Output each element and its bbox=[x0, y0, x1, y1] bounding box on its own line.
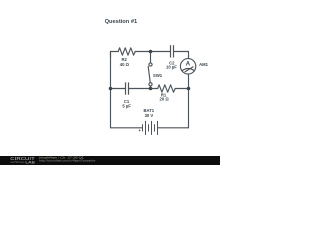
wire top-left corner bbox=[111, 52, 119, 58]
footer logo CIRCUIT LAB bbox=[10, 156, 35, 164]
svg-text:10 µF: 10 µF bbox=[166, 65, 177, 70]
capacitor C1 bbox=[126, 82, 129, 94]
wire bottom left bbox=[111, 127, 143, 129]
svg-text:Question #1: Question #1 bbox=[105, 19, 138, 25]
svg-text:5 µF: 5 µF bbox=[122, 104, 131, 109]
node switch-bottom junction bbox=[149, 87, 153, 91]
wire middle right bbox=[175, 88, 188, 90]
svg-text:SW1: SW1 bbox=[153, 73, 163, 78]
wire bottom right bbox=[158, 127, 189, 129]
wire middle left bbox=[111, 88, 126, 90]
switch SW1 bbox=[148, 63, 152, 89]
svg-text:LAB: LAB bbox=[25, 161, 35, 165]
svg-text:AM1: AM1 bbox=[199, 62, 209, 67]
resistor R1 bbox=[158, 85, 176, 92]
resistor R2 bbox=[118, 48, 135, 55]
wire right side lower bbox=[188, 74, 190, 128]
svg-text:A: A bbox=[186, 61, 191, 67]
wire switch drop bbox=[150, 52, 152, 63]
node top junction bbox=[149, 50, 153, 54]
node middle-right junction bbox=[187, 87, 191, 91]
node middle-left junction bbox=[109, 87, 113, 91]
wire middle center bbox=[129, 88, 158, 90]
ammeter AM1 bbox=[180, 59, 195, 74]
battery BAT1 bbox=[143, 121, 158, 135]
svg-text:40 Ω: 40 Ω bbox=[120, 62, 130, 67]
svg-text:20 Ω: 20 Ω bbox=[160, 97, 170, 102]
capacitor C2 bbox=[171, 45, 174, 57]
svg-text:http://circuitlab.com/c/4jqm7y: http://circuitlab.com/c/4jqm7yzaaxbz bbox=[39, 159, 96, 163]
svg-text:30 V: 30 V bbox=[145, 113, 154, 118]
footer bar bbox=[0, 156, 220, 165]
wire left side bbox=[110, 52, 112, 128]
wire top mid bbox=[135, 51, 170, 53]
wire top right bbox=[174, 52, 189, 59]
